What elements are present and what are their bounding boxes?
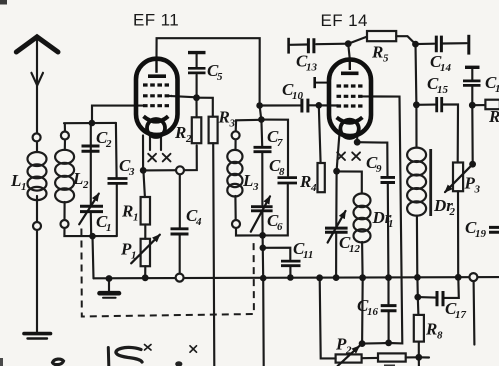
svg-text:2: 2 — [345, 345, 352, 357]
svg-text:2: 2 — [105, 138, 112, 150]
svg-text:EF 11: EF 11 — [133, 11, 179, 30]
svg-text:9: 9 — [376, 163, 382, 175]
svg-text:3: 3 — [128, 166, 135, 178]
svg-text:11: 11 — [303, 249, 313, 261]
svg-text:2: 2 — [82, 179, 89, 191]
svg-text:3: 3 — [474, 184, 481, 196]
svg-text:1: 1 — [133, 212, 139, 224]
svg-text:R: R — [371, 43, 383, 62]
svg-text:19: 19 — [475, 228, 487, 240]
svg-text:3: 3 — [252, 181, 259, 193]
svg-text:4: 4 — [195, 216, 202, 228]
svg-text:R: R — [299, 172, 311, 191]
svg-text:15: 15 — [437, 84, 449, 96]
svg-text:R: R — [174, 123, 186, 142]
svg-text:5: 5 — [383, 53, 389, 65]
svg-text:8: 8 — [437, 330, 443, 342]
svg-text:R: R — [218, 108, 230, 127]
svg-text:14: 14 — [440, 62, 452, 74]
svg-text:1: 1 — [388, 218, 394, 230]
svg-text:L: L — [72, 169, 83, 188]
svg-text:L: L — [10, 171, 21, 190]
svg-text:10: 10 — [292, 90, 304, 102]
svg-text:R: R — [425, 320, 437, 339]
svg-text:18: 18 — [495, 83, 499, 95]
svg-text:6: 6 — [277, 221, 283, 233]
svg-text:2: 2 — [185, 133, 192, 145]
svg-text:R: R — [121, 202, 133, 221]
svg-text:3: 3 — [229, 118, 236, 130]
svg-text:7: 7 — [277, 137, 283, 149]
svg-text:5: 5 — [217, 71, 223, 83]
svg-text:L: L — [242, 171, 253, 190]
svg-text:1: 1 — [131, 250, 137, 262]
svg-text:R: R — [488, 107, 499, 126]
svg-text:12: 12 — [349, 243, 361, 255]
svg-text:16: 16 — [367, 306, 379, 318]
svg-text:1: 1 — [106, 222, 112, 234]
svg-text:8: 8 — [279, 166, 285, 178]
svg-text:4: 4 — [310, 182, 317, 194]
svg-text:2: 2 — [449, 206, 456, 218]
svg-text:1: 1 — [21, 181, 27, 193]
svg-text:17: 17 — [455, 309, 467, 321]
svg-text:EF 14: EF 14 — [321, 11, 368, 30]
svg-text:13: 13 — [306, 62, 318, 74]
